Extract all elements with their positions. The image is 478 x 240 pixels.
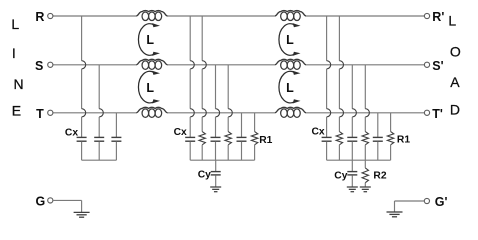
svg-text:L: L — [11, 16, 19, 32]
label LOAD letter A — [450, 74, 460, 90]
capacitor Cx bank1 R-phase (with crossover hops) — [77, 16, 87, 160]
label R2 bank3 — [373, 170, 386, 181]
wire G' to ground — [395, 201, 425, 212]
wire T line middle segment — [168, 112, 275, 114]
capacitor Cx bank1 S-phase (with crossover hop) — [94, 65, 104, 160]
resistor R1 bank2 T-phase — [251, 113, 257, 160]
svg-text:O: O — [450, 43, 461, 59]
svg-text:A: A — [450, 74, 460, 90]
svg-text:L: L — [448, 13, 456, 29]
terminal G' — [424, 195, 447, 209]
resistor R1 bank3 T-phase — [387, 113, 393, 160]
label LINE letter L — [11, 16, 19, 32]
terminal R — [35, 10, 53, 24]
svg-text:Cx: Cx — [65, 127, 78, 138]
label Cx bank3 — [312, 126, 325, 137]
svg-text:R2: R2 — [373, 170, 386, 181]
wire bank1 star rail — [82, 159, 117, 161]
wire R line middle segment — [168, 15, 275, 17]
label Cy bank3 — [334, 170, 347, 181]
terminal S — [35, 59, 53, 73]
ground bank3 Cy — [347, 187, 358, 192]
wire S line right segment — [306, 64, 424, 66]
svg-text:Cx: Cx — [174, 127, 187, 138]
wire bank3 star rail — [327, 159, 391, 161]
label LINE letter E — [12, 103, 21, 119]
capacitor Cx bank1 T-phase — [111, 113, 121, 160]
capacitor Cx bank2 S-phase (with crossover hop) — [211, 65, 221, 160]
svg-text:N: N — [14, 76, 24, 92]
svg-text:S: S — [35, 59, 43, 73]
svg-text:L: L — [286, 33, 294, 47]
label Cx bank1 — [65, 127, 78, 138]
svg-text:R1: R1 — [259, 135, 272, 146]
wire bank2 star rail — [190, 159, 254, 161]
svg-text:L: L — [286, 81, 294, 95]
terminal T' — [424, 107, 443, 121]
coupling arrow L (choke 2 lower) — [279, 71, 301, 104]
capacitor Cy bank3 (star point to ground) — [347, 160, 357, 187]
capacitor Cx bank2 R-phase (with crossover hops) — [185, 16, 195, 160]
inductor L2c coil (T line, choke 2) — [275, 107, 306, 117]
label LINE letter I — [12, 45, 16, 61]
svg-text:D: D — [450, 101, 460, 117]
wire R line left segment — [53, 15, 136, 17]
inductor L2a coil (R line, choke 2) — [275, 11, 306, 21]
svg-text:S': S' — [432, 59, 443, 73]
svg-text:Cy: Cy — [334, 170, 347, 181]
wire G to ground — [53, 200, 82, 212]
ground bank2 Cy — [210, 187, 221, 192]
wire T line left segment — [53, 112, 136, 114]
ground bank3 R2 — [360, 187, 371, 192]
label Cx bank2 — [174, 127, 187, 138]
svg-text:R: R — [35, 10, 44, 24]
inductor L2b coil (S line, choke 2) — [275, 59, 306, 69]
capacitor Cy bank2 (star point to ground) — [211, 160, 221, 187]
label R1 bank3 — [397, 135, 410, 146]
svg-text:E: E — [12, 103, 21, 119]
label R1 bank2 — [259, 135, 272, 146]
svg-text:R': R' — [432, 10, 444, 24]
svg-text:Cy: Cy — [198, 169, 211, 180]
terminal S' — [424, 59, 443, 73]
inductor L1a coil (R line, choke 1) — [136, 11, 167, 21]
svg-text:T': T' — [432, 107, 443, 121]
capacitor Cx bank3 S-phase (with crossover hop) — [347, 65, 357, 160]
inductor L1b coil (S line, choke 1) — [136, 59, 167, 69]
wire S line left segment — [53, 64, 136, 66]
coupling arrow L (choke 2 upper) — [279, 23, 301, 56]
terminal T — [36, 107, 53, 121]
coupling arrow L (choke 1 upper) — [138, 23, 160, 56]
capacitor Cx bank2 T-phase — [237, 113, 247, 160]
capacitor Cx bank3 R-phase (with crossover hops) — [322, 16, 332, 160]
svg-text:L: L — [146, 33, 154, 47]
label LINE letter N — [14, 76, 24, 92]
svg-text:I: I — [12, 45, 16, 61]
svg-text:L: L — [146, 81, 154, 95]
terminal R' — [424, 10, 444, 24]
terminal G — [36, 195, 53, 209]
label LOAD letter D — [450, 101, 460, 117]
resistor R2 bank3 (star point to ground) — [362, 160, 368, 187]
resistor bank2 S-phase (with crossover hop) — [225, 65, 232, 160]
ground G' (earth symbol) — [387, 212, 403, 217]
wire S line middle segment — [168, 64, 275, 66]
resistor bank3 R-phase (with crossover hops) — [336, 16, 343, 160]
wire R line right segment — [306, 15, 424, 17]
label LOAD letter L — [448, 13, 456, 29]
inductor L1c coil (T line, choke 1) — [136, 107, 167, 117]
label Cy bank2 — [198, 169, 211, 180]
coupling arrow L (choke 1 lower) — [138, 71, 160, 104]
resistor bank2 R-phase (with crossover hops) — [199, 16, 206, 160]
wire T line right segment — [306, 112, 424, 114]
resistor bank3 S-phase (with crossover hop) — [362, 65, 369, 160]
svg-text:R1: R1 — [397, 135, 410, 146]
svg-text:Cx: Cx — [312, 126, 325, 137]
svg-text:G: G — [36, 195, 46, 209]
label LOAD letter O — [450, 43, 461, 59]
svg-text:T: T — [36, 107, 44, 121]
ground G (earth symbol) — [74, 212, 90, 217]
svg-text:G': G' — [435, 195, 448, 209]
capacitor Cx bank3 T-phase — [373, 113, 383, 160]
